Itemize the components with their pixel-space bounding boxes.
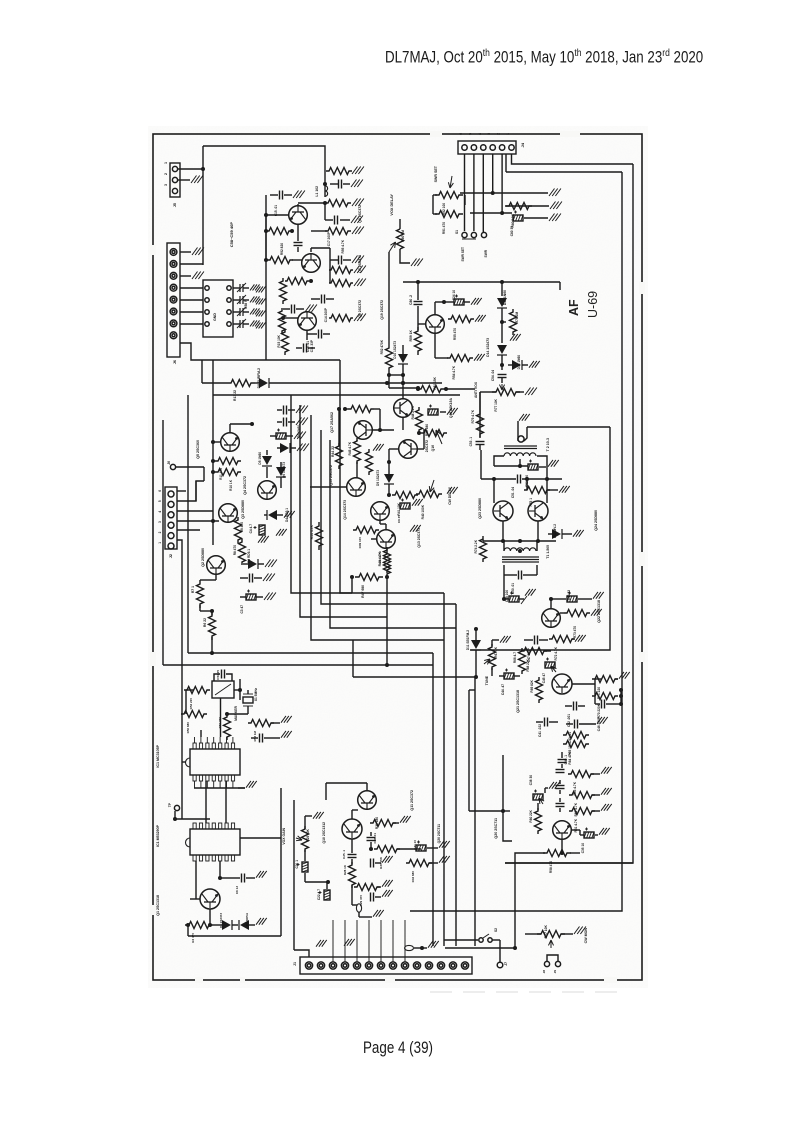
GND box pins right: [227, 286, 231, 326]
resistor R2 470: [185, 922, 213, 929]
connector J2 6-pin: [165, 487, 177, 549]
label C45 47: [542, 673, 546, 684]
arrowish C48: [521, 596, 527, 604]
transistor Q22 2SC1318: [542, 609, 561, 628]
ground C13: [352, 256, 364, 264]
resistor R79 4.7K: [477, 392, 484, 438]
wire y383 right: [387, 382, 442, 384]
label C58 F: [244, 300, 248, 309]
wire y375 node: [387, 372, 405, 385]
wire Q1 base: [190, 838, 281, 899]
label VOX GAIN: [282, 827, 286, 844]
label SWR SET bottom: [461, 247, 465, 262]
connector J1 box: [300, 957, 472, 974]
label R79 4.7K: [471, 409, 475, 423]
wire S2 right: [492, 940, 500, 962]
ground C19: [351, 180, 363, 188]
label IC1 MC3359P: [156, 744, 160, 767]
wire S2 left: [444, 939, 478, 941]
label C11 33P: [310, 339, 314, 352]
ground mic: [373, 910, 384, 917]
label D6 1S2473: [282, 462, 286, 478]
label R58 470: [549, 861, 553, 873]
resistor R39 100: [353, 527, 379, 534]
label Q22 2SC1318: [597, 600, 601, 623]
diode D7 arrow: [277, 443, 296, 453]
ground y193: [549, 189, 561, 197]
ground R32: [439, 856, 450, 863]
capacitor C19 150P: [330, 180, 350, 189]
resistor R46b 1K: [366, 449, 373, 475]
ground R57: [574, 927, 586, 935]
label T2 10-3: [546, 438, 550, 451]
label D2 RD5A: [245, 912, 249, 926]
resistor R9 470: [235, 517, 242, 543]
junction x325 y184: [323, 171, 327, 197]
ground R67: [500, 636, 511, 643]
J2 label: [169, 554, 173, 558]
resistor R41 10K: [387, 492, 418, 499]
wire top bus: [203, 146, 325, 171]
wire marker net2: [225, 679, 248, 716]
resistor R61 4.7K: [569, 808, 600, 815]
wire J4 pin3 down: [491, 154, 495, 195]
resistor R17 220: [280, 278, 287, 304]
label R32 680: [411, 871, 415, 883]
capacitor C28: [367, 832, 376, 848]
pot R67 1K: [484, 644, 496, 670]
label R72 4.7K: [554, 646, 558, 660]
transistor Q relay driver: [426, 315, 445, 334]
ground D7: [297, 444, 309, 452]
wire Q25 emitter: [560, 840, 564, 855]
switch S1 contact a: [462, 232, 467, 237]
resistor R31 680: [370, 820, 399, 827]
label D11 SB1FM-2: [466, 630, 470, 650]
resistor R43 4.7K: [384, 547, 391, 573]
T1 primary: [504, 541, 537, 551]
label D1 1S2473: [219, 913, 223, 928]
resistor R91 470: [435, 211, 463, 218]
wire vertical x203: [202, 146, 204, 265]
resistor R95 4.7K: [311, 228, 351, 235]
label D14 1S2473: [486, 338, 490, 357]
capacitor C11 33P: [307, 330, 330, 339]
label R2 470: [191, 933, 195, 943]
capacitor C14 200P: [311, 295, 334, 304]
capacitor C42 .001: [565, 702, 585, 711]
ground R63: [601, 767, 612, 774]
capacitor C46 200P: [595, 700, 623, 709]
wire y387 right: [401, 381, 475, 389]
ground R21: [354, 314, 366, 322]
label R50 680: [425, 424, 429, 436]
label R14 4.7K: [310, 524, 314, 539]
ground C43: [597, 717, 608, 724]
pot R57 10K: [525, 931, 573, 949]
T2 secondary: [504, 453, 536, 456]
wire mic net: [352, 885, 357, 905]
bundle wire y653: [188, 652, 433, 654]
wire y282 to D15: [559, 282, 561, 290]
electrolytic C21 1: [297, 850, 309, 872]
resistor R74 2.2K: [480, 536, 487, 562]
transistor Q15: [347, 478, 366, 497]
wire J6 pin4: [180, 287, 203, 289]
capacitor C5: [240, 574, 275, 583]
ground R61: [601, 804, 612, 811]
label R57 10K: [544, 924, 548, 938]
label R62 4.7K: [574, 802, 578, 816]
resistor R66 4.7: [519, 648, 526, 674]
wire J6 pin7: [180, 323, 203, 325]
ground T2 tap: [519, 414, 530, 421]
label C38 30: [529, 775, 533, 786]
bundle wire y665: [163, 663, 433, 667]
ground R31: [400, 816, 411, 823]
label J4: [520, 142, 525, 147]
wire Q22 collector: [549, 597, 566, 608]
wire y360 bus: [266, 359, 340, 361]
label C80 .2: [409, 295, 413, 305]
ground R77: [525, 388, 537, 396]
wire net x502: [500, 280, 504, 296]
label C41 .022: [538, 724, 542, 737]
label C51 .04: [511, 487, 515, 498]
label R77 10K: [494, 398, 498, 411]
wire J6 pin1 gnd: [180, 251, 191, 253]
ground R55: [475, 315, 486, 322]
switch S1 contact b: [471, 232, 476, 237]
capacitor C16 .01: [296, 344, 315, 353]
label R52m: [189, 698, 193, 710]
capacitor C12 .01: [283, 305, 304, 314]
ground R97: [352, 167, 364, 175]
electrolytic C4 4.7: [254, 525, 269, 543]
wire R58 left: [515, 853, 545, 864]
resistor R78 1M: [510, 309, 517, 335]
wire IC1 bus: [182, 665, 186, 819]
transistor Q1: [200, 889, 220, 909]
label C14 200P: [324, 307, 328, 322]
label R15 10K: [277, 334, 281, 347]
transistor Q9: [289, 206, 308, 225]
capacitor C51m 25: [214, 670, 232, 682]
J6 label: [173, 360, 177, 364]
label J9: [553, 970, 557, 974]
electrolytic C48 100: [504, 592, 524, 603]
diode D1 1S2473: [213, 920, 238, 930]
resistor R69 82K: [536, 677, 543, 703]
resistor R53m 1M: [248, 720, 280, 727]
label R52 470K: [380, 339, 384, 354]
bundle turn x433: [432, 653, 434, 946]
pot R92 100 SWR: [435, 192, 463, 199]
label C40 .1: [564, 755, 568, 765]
diode D5 1N60: [262, 450, 272, 478]
switch S1 third: [481, 154, 486, 238]
wire Q9 emitter: [297, 225, 299, 241]
label Q15 2SC372: [329, 465, 333, 486]
wire Q8 base: [292, 259, 302, 261]
resistor R28 1K: [349, 862, 356, 888]
label Q17 2SA562: [330, 412, 334, 433]
label D5b 1N60: [297, 425, 301, 438]
wire y788 to gnd: [238, 787, 245, 789]
label J6 pin: [167, 461, 171, 465]
ground C12: [305, 305, 317, 313]
ground C52m: [281, 731, 292, 738]
label S2: [494, 928, 498, 932]
wire y690 box: [469, 690, 475, 811]
wire x202 drop: [201, 360, 203, 383]
electrolytic C49 33: [567, 592, 592, 603]
wire J5 pin1 to node: [178, 167, 205, 171]
resistor R73 470: [560, 610, 590, 617]
capacitor C13 .01: [330, 256, 351, 265]
label Q6 2SC372: [358, 300, 362, 318]
label R78 1M: [515, 312, 519, 324]
resistor R47 680: [350, 574, 389, 581]
resistor R60 22K: [535, 803, 542, 834]
label Q10 2SC1312: [322, 822, 326, 844]
bundle wire y677: [353, 676, 475, 678]
wire Q25 net: [501, 809, 584, 835]
switch S2: [479, 934, 492, 942]
wire J4 pin2 down: [500, 154, 504, 215]
IC1 pins bottom: [193, 775, 235, 781]
label R48 2.2K: [411, 405, 415, 419]
ground R46b: [373, 444, 384, 451]
label R64 47K: [568, 751, 572, 764]
grounds for trimmer bank: [250, 284, 266, 328]
label R60 22K: [529, 809, 533, 822]
ground jack: [422, 941, 439, 948]
diode D10 1S2473: [398, 345, 408, 375]
diode D6 1S2473: [276, 462, 286, 488]
label T1 1-505: [546, 545, 550, 559]
resistor R60 1M pot: [397, 219, 404, 249]
label C16 .01: [306, 341, 310, 352]
diode D11 SB1FM-2: [471, 627, 481, 679]
resistor R51 15K: [416, 386, 448, 393]
capacitor C40 .1: [558, 752, 567, 768]
wire R67 net: [492, 640, 499, 676]
resistor R96 330: [325, 200, 351, 207]
label L1 102: [315, 186, 319, 197]
resistor R22 810: [285, 278, 313, 285]
label S1: [455, 230, 459, 234]
diode D2 RD5A: [239, 920, 255, 930]
ground C52: [548, 460, 559, 467]
frame dash breaks: [150, 131, 645, 983]
wire Q21 collector net: [572, 679, 602, 704]
capacitor C37: [556, 798, 565, 812]
electrolytic C80 35: [513, 211, 548, 222]
IC pin wires: [194, 781, 245, 788]
resistor R72 4.7K: [549, 636, 575, 643]
label R69 82K: [530, 679, 534, 692]
capacitor C25 .1: [348, 839, 357, 864]
capacitor C18 .01: [294, 243, 303, 253]
wire IC2 net: [218, 861, 233, 880]
resistor R52m 220: [184, 687, 210, 694]
resistor R63 4.7K: [568, 771, 600, 778]
label C25 .1: [342, 850, 346, 859]
wire SWR box: [433, 195, 465, 214]
label D4 RD9.1: [285, 508, 289, 522]
ground C15: [293, 191, 305, 199]
ground C17: [351, 216, 363, 224]
wire left net x163: [162, 420, 164, 665]
resistor R42 680: [343, 406, 374, 413]
label R30 15K: [379, 856, 383, 869]
label R50m: [186, 722, 190, 734]
label R31 680: [375, 817, 379, 829]
arrow SWR pot: [448, 176, 453, 188]
capacitor C53 .1: [476, 442, 485, 451]
label R44 22: [331, 446, 335, 457]
label R28 1K: [343, 864, 347, 875]
ground R93: [354, 279, 366, 287]
wire y948 bus: [445, 947, 515, 949]
label D12 MV-2: [553, 524, 557, 538]
label C3: [240, 605, 244, 614]
wire x213 drop: [212, 360, 214, 395]
diode D14 1S2473: [497, 345, 507, 370]
ground D12: [573, 530, 584, 537]
label SWR SET top: [434, 165, 438, 182]
transistor Q13: [377, 530, 396, 549]
wire J4 pin6 down: [464, 154, 466, 231]
wire Q23 Q24 base bus: [494, 479, 547, 503]
vertical bundle x300: [300, 405, 387, 617]
label R73 470: [573, 626, 577, 638]
label R39 100: [358, 537, 362, 549]
label Q13 2SC373: [417, 528, 421, 548]
wire J4 pin5 down: [473, 154, 475, 231]
T1 secondary link: [504, 565, 537, 575]
wire C21 bottom: [305, 873, 330, 884]
ground R94: [354, 266, 366, 274]
label ANTI VOX: [474, 381, 478, 398]
ground J1 area: [316, 939, 355, 947]
capacitor C51 .04: [481, 475, 562, 484]
label R95 4.7K: [341, 239, 345, 253]
diode D15 1N60: [497, 298, 507, 320]
resistor R48 2.2K: [416, 407, 423, 435]
diode D12 MV-2: [548, 529, 572, 539]
label R80 2.2K: [511, 213, 515, 227]
resistor R64 47K: [563, 741, 589, 748]
ground D13: [529, 361, 540, 368]
resistor R91 680: [264, 257, 293, 264]
label Q24 2SD880: [594, 510, 598, 531]
label C24 10: [452, 290, 456, 301]
ground R96: [352, 199, 364, 207]
ground C80 35: [549, 214, 561, 222]
resistor R93 10K: [329, 280, 353, 287]
label R51 15K: [433, 376, 437, 389]
resistor R50 680 pot: [421, 430, 447, 445]
pin J6 single: [170, 464, 204, 469]
capacitor C50 .01: [504, 571, 537, 580]
wire J6 pin5: [180, 299, 203, 301]
label R41 10K: [397, 502, 401, 515]
diode D8 SB SURFM-2: [255, 378, 310, 388]
wire left net x188: [188, 395, 196, 653]
junction T2 center tap: [494, 459, 528, 468]
resistor R14 4.7K: [316, 522, 323, 550]
wire y282 bus: [403, 280, 560, 284]
ground D2: [256, 918, 267, 925]
label R46 4.7K: [378, 551, 382, 566]
testpoint TP: [168, 781, 226, 823]
label R45 4.7K: [348, 441, 352, 455]
label Q8 2SC372: [358, 205, 362, 223]
resistor R71 220: [592, 676, 618, 683]
resistor R54 4.7K: [447, 355, 473, 362]
label C4 4.7: [249, 524, 253, 534]
wire T2 right to bus: [470, 427, 610, 650]
label Q5 2SC360: [196, 440, 200, 459]
resistor R51m 220: [224, 714, 231, 740]
label Q4 2SC372: [243, 476, 247, 495]
ground C48: [525, 589, 536, 596]
label C17 200P: [327, 231, 331, 246]
label R11 470: [219, 468, 223, 480]
transistor Q16: [399, 440, 418, 459]
resistor R45 4.7K: [354, 438, 361, 464]
ground Q13: [410, 525, 421, 532]
wire J6 pin2: [180, 263, 203, 265]
IC pin wires2: [195, 698, 233, 743]
transistor Q2: [207, 556, 226, 575]
resistor R92 820: [264, 215, 294, 260]
label C42 .001: [567, 714, 571, 727]
wire Q9 base net: [264, 213, 289, 217]
label J7: [504, 962, 508, 966]
ground C6: [256, 871, 267, 878]
label Q1 2SC1318: [156, 895, 160, 916]
wire S1 bridge: [462, 238, 476, 240]
bus line x622: [410, 172, 622, 911]
electrolytic C52 100: [528, 460, 546, 471]
label R75 1: [529, 498, 533, 507]
transistor Q14: [371, 502, 390, 521]
wire x504 down: [502, 575, 506, 601]
electrolytic C7 4.7: [270, 429, 293, 440]
bus line x633: [505, 164, 633, 863]
label R60 1M: [401, 230, 405, 242]
resistor R68 22K: [521, 648, 551, 655]
ground cluster mid: [276, 529, 287, 536]
label D5 1N60: [258, 452, 262, 465]
transistor Q8: [302, 254, 321, 273]
wire J2 pin wires: [177, 481, 219, 665]
label VOX DELAY: [390, 194, 394, 216]
resistor R94 1K: [329, 267, 353, 274]
label Q11 2SC372: [410, 790, 414, 811]
jack J8 J9: [544, 955, 560, 967]
electrolytic C33: [428, 405, 458, 416]
electrolytic C3: [240, 590, 276, 601]
wire Q9 collector: [298, 201, 327, 220]
wire q10 chain: [326, 783, 367, 819]
label C28 .01: [373, 833, 377, 844]
ground R29v: [313, 812, 324, 819]
footer page number: [363, 1039, 433, 1058]
